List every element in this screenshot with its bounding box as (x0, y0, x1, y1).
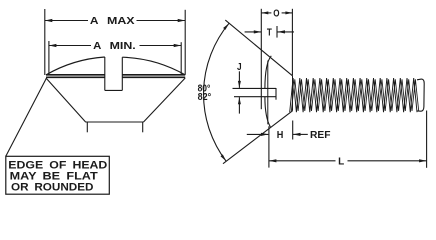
svg-text:MIN.: MIN. (110, 41, 136, 52)
slot notch right wall (121, 57, 123, 90)
slot notch bottom (105, 89, 123, 91)
svg-text:REF: REF (310, 130, 331, 141)
thread start edge (292, 76, 294, 111)
shank break tick left (86, 122, 88, 132)
countersunk cone flank left (46, 78, 86, 122)
head edge double line (46, 74, 105, 76)
dimension L (269, 160, 336, 162)
cone flank extended lower (223, 111, 293, 164)
shank break tick right (142, 122, 144, 132)
cone flank extended upper (225, 20, 292, 76)
svg-text:T: T (267, 28, 273, 39)
T tick (276, 26, 278, 38)
svg-text:J: J (237, 62, 242, 73)
svg-text:H: H (277, 130, 284, 141)
dimension O (261, 12, 271, 14)
svg-text:L: L (338, 156, 345, 167)
svg-text:82°: 82° (198, 92, 212, 103)
slot notch left wall (104, 57, 106, 90)
screw tip chamfered end (417, 79, 424, 111)
svg-text:O: O (273, 8, 279, 19)
leader line to note box (6, 78, 47, 156)
svg-text:MAX: MAX (107, 16, 135, 27)
L right extension line (426, 111, 428, 168)
extension line head top plane (H/L) (268, 126, 270, 167)
crown arc lower half (265, 97, 271, 127)
dimension A MAX (45, 20, 88, 22)
crown arc of head (46, 57, 105, 75)
extension line at shank for H (292, 121, 294, 140)
slot far-side edge on crown (267, 61, 269, 125)
extension line A MAX right (184, 10, 186, 75)
crown arc upper half (265, 56, 271, 89)
angle dimension arc 80-82 deg (204, 23, 230, 161)
extension line A MIN left (48, 41, 50, 75)
svg-text:A: A (90, 16, 99, 27)
dimension H (247, 133, 269, 135)
head bottom line (85, 121, 143, 123)
slot bottom cap (275, 88, 277, 100)
countersunk cone flank right (144, 78, 186, 122)
O extension line right (291, 9, 293, 76)
extension line A MAX left (44, 9, 46, 75)
dimension T slot depth (245, 31, 262, 33)
slot profile bottom line / J extension (234, 96, 276, 98)
note box (6, 156, 110, 194)
dimension A MIN (49, 45, 91, 47)
svg-text:OR ROUNDED: OR ROUNDED (11, 182, 94, 194)
O extension line left (260, 9, 262, 109)
extension line A MIN right (180, 42, 182, 74)
svg-text:A: A (93, 41, 102, 52)
slot profile top line / J extension (233, 87, 277, 89)
threaded shank (290, 78, 417, 112)
